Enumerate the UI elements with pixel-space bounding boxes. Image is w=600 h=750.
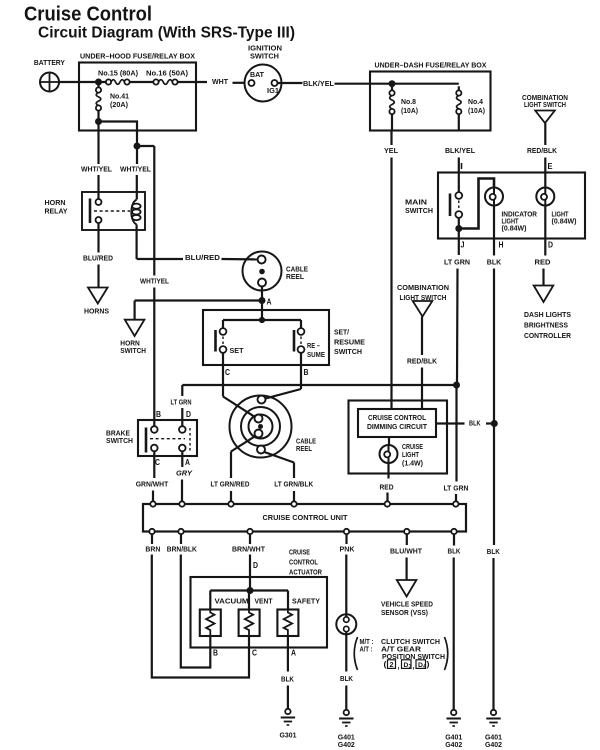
svg-text:BLU/WHT: BLU/WHT — [390, 547, 422, 556]
svg-text:G402: G402 — [338, 740, 355, 749]
svg-text:J: J — [461, 240, 465, 250]
svg-text:RED/BLK: RED/BLK — [407, 357, 437, 366]
svg-text:VACUUM: VACUUM — [215, 597, 249, 606]
svg-text:LIGHT SWITCH: LIGHT SWITCH — [524, 100, 566, 109]
svg-text:BLK/YEL: BLK/YEL — [445, 146, 475, 155]
svg-text:B: B — [304, 367, 309, 377]
svg-text:CRUISE CONTROL: CRUISE CONTROL — [368, 413, 426, 422]
svg-text:No.16 (50A): No.16 (50A) — [146, 69, 188, 78]
svg-text:RED: RED — [380, 483, 394, 492]
svg-text:2: 2 — [390, 662, 394, 669]
svg-text:SAFETY: SAFETY — [292, 597, 320, 606]
svg-text:CONTROL: CONTROL — [289, 558, 318, 567]
svg-text:BATTERY: BATTERY — [34, 58, 65, 67]
svg-text:SET: SET — [230, 346, 244, 355]
svg-text:HORNS: HORNS — [84, 307, 109, 316]
svg-text:LT GRN: LT GRN — [444, 258, 470, 267]
svg-text:BLK: BLK — [469, 419, 481, 428]
svg-text:GRN/WHT: GRN/WHT — [136, 480, 169, 489]
svg-text:(: ( — [384, 660, 387, 669]
svg-text:(0.84W): (0.84W) — [552, 217, 577, 226]
svg-text:,: , — [398, 661, 400, 670]
svg-text:G301: G301 — [280, 731, 298, 740]
svg-text:SWITCH: SWITCH — [405, 206, 433, 215]
svg-text:BRN/BLK: BRN/BLK — [167, 545, 197, 554]
svg-text:(10A): (10A) — [468, 106, 485, 115]
svg-text:3: 3 — [409, 664, 412, 670]
svg-text:SWITCH: SWITCH — [250, 52, 279, 61]
svg-text:RELAY: RELAY — [45, 207, 68, 216]
svg-text:BAT: BAT — [250, 70, 264, 79]
svg-text:GRY: GRY — [176, 469, 193, 478]
svg-text:): ) — [427, 660, 430, 669]
svg-text:BRN/WHT: BRN/WHT — [232, 545, 265, 554]
svg-text:I: I — [460, 161, 463, 171]
svg-text:UNDER–HOOD FUSE/RELAY BOX: UNDER–HOOD FUSE/RELAY BOX — [80, 52, 195, 61]
svg-text:SUME: SUME — [307, 350, 325, 359]
svg-text:SWITCH: SWITCH — [106, 436, 133, 445]
svg-text:(20A): (20A) — [110, 100, 128, 109]
svg-text:No.15 (80A): No.15 (80A) — [98, 69, 138, 78]
svg-text:B: B — [156, 409, 161, 419]
svg-text:PNK: PNK — [340, 545, 355, 554]
svg-text:C: C — [252, 648, 257, 658]
svg-text:VENT: VENT — [255, 597, 273, 606]
svg-text:G402: G402 — [485, 740, 502, 749]
svg-text:RED/BLK: RED/BLK — [527, 146, 557, 155]
svg-text:,: , — [413, 661, 415, 670]
svg-text:SWITCH: SWITCH — [334, 347, 362, 356]
svg-text:WHT/YEL: WHT/YEL — [140, 277, 169, 286]
svg-text:UNDER–DASH FUSE/RELAY BOX: UNDER–DASH FUSE/RELAY BOX — [375, 61, 487, 70]
svg-text:D: D — [186, 409, 191, 419]
svg-text:BLK: BLK — [448, 547, 461, 556]
svg-text:RESUME: RESUME — [334, 338, 365, 347]
svg-text:A: A — [185, 457, 190, 467]
svg-text:REEL: REEL — [296, 444, 312, 453]
svg-text:BLK: BLK — [487, 258, 502, 267]
svg-text:REEL: REEL — [286, 272, 304, 281]
svg-text:SENSOR (VSS): SENSOR (VSS) — [381, 608, 428, 617]
svg-text:A: A — [291, 648, 296, 658]
svg-text:RED: RED — [535, 258, 552, 267]
svg-text:BLK: BLK — [340, 674, 353, 683]
svg-text:(1.4W): (1.4W) — [402, 459, 423, 468]
svg-text:BRN: BRN — [145, 545, 160, 554]
svg-text:SET/: SET/ — [334, 328, 350, 337]
svg-text:BLK: BLK — [281, 675, 294, 684]
svg-text:C: C — [225, 367, 230, 377]
svg-text:BLK: BLK — [487, 547, 500, 556]
svg-text:No.8: No.8 — [401, 97, 416, 106]
svg-text:RE –: RE – — [307, 341, 320, 350]
svg-text:WHT: WHT — [212, 77, 228, 86]
svg-text:COMBINATION: COMBINATION — [397, 283, 449, 292]
svg-text:BLU/RED: BLU/RED — [83, 254, 113, 263]
svg-text:E: E — [548, 161, 553, 171]
svg-text:G402: G402 — [445, 740, 462, 749]
svg-text:Circuit Diagram (With SRS-Type: Circuit Diagram (With SRS-Type III) — [38, 24, 295, 41]
svg-text:DIMMING CIRCUIT: DIMMING CIRCUIT — [367, 422, 427, 431]
svg-text:SWITCH: SWITCH — [120, 346, 146, 355]
svg-text:B: B — [213, 648, 218, 658]
svg-text:BLU/RED: BLU/RED — [185, 253, 221, 262]
svg-text:CRUISE CONTROL UNIT: CRUISE CONTROL UNIT — [263, 513, 348, 522]
svg-text:(0.84W): (0.84W) — [502, 224, 527, 233]
svg-text:CONTROLLER: CONTROLLER — [524, 331, 571, 340]
svg-text:A/T :: A/T : — [360, 645, 373, 654]
svg-text:LT GRN: LT GRN — [444, 484, 469, 493]
svg-text:IG1: IG1 — [267, 86, 280, 95]
svg-text:A: A — [267, 297, 272, 307]
svg-text:BLK/YEL: BLK/YEL — [303, 79, 334, 88]
svg-text:C: C — [155, 457, 160, 467]
svg-text:LT GRN/BLK: LT GRN/BLK — [274, 480, 313, 489]
svg-text:LT GRN: LT GRN — [171, 398, 192, 407]
svg-text:ACTUATOR: ACTUATOR — [289, 568, 322, 577]
svg-text:WHT/YEL: WHT/YEL — [120, 165, 151, 174]
svg-text:BRIGHTNESS: BRIGHTNESS — [524, 321, 568, 330]
svg-text:D: D — [253, 560, 258, 570]
svg-text:(10A): (10A) — [401, 106, 418, 115]
svg-text:No.4: No.4 — [468, 97, 484, 106]
svg-text:LT GRN/RED: LT GRN/RED — [211, 480, 250, 489]
svg-text:D: D — [548, 240, 553, 250]
svg-text:WHT/YEL: WHT/YEL — [81, 165, 112, 174]
svg-text:YEL: YEL — [384, 146, 398, 155]
svg-text:DASH LIGHTS: DASH LIGHTS — [524, 310, 571, 319]
svg-text:Cruise Control: Cruise Control — [24, 3, 152, 25]
svg-text:CRUISE: CRUISE — [289, 548, 310, 557]
svg-text:H: H — [499, 240, 504, 250]
